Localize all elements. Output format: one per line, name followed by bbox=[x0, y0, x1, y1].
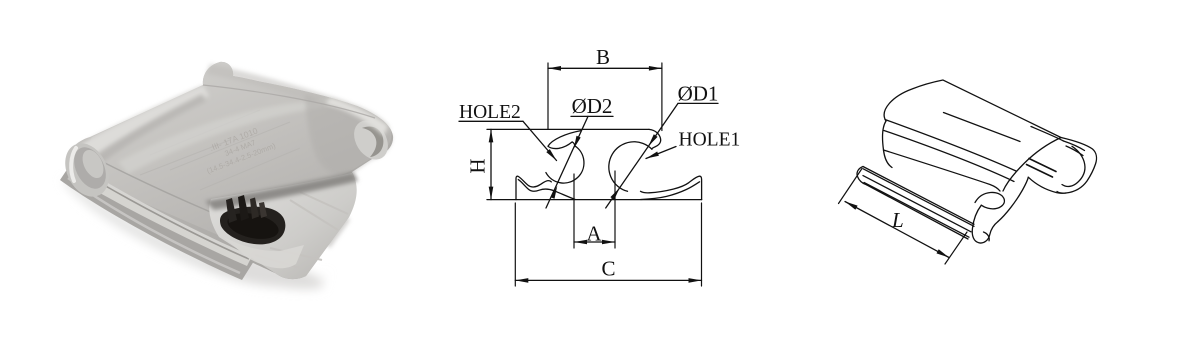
small tube line 1 bbox=[863, 167, 974, 225]
small tube line 3 bbox=[864, 183, 969, 238]
valley inner curl bbox=[984, 232, 990, 241]
HOLE1 leader with arrowhead bbox=[646, 147, 676, 159]
left wing inner surface bbox=[518, 180, 575, 200]
ØD1 arrowheads bbox=[648, 134, 657, 146]
near-end cap corner knob bbox=[975, 192, 1004, 208]
cap left lip underside bbox=[548, 142, 575, 149]
right side shading bbox=[305, 95, 392, 176]
B arrowheads bbox=[548, 66, 561, 71]
ØD2 arrowheads bbox=[574, 136, 581, 149]
dimension A line bbox=[574, 241, 615, 243]
HOLE2 leader with arrowhead bbox=[523, 121, 557, 160]
dimension C extension lines bbox=[514, 203, 516, 286]
cap top face surface lines bbox=[885, 120, 1016, 172]
left tube end face bbox=[57, 136, 118, 204]
left wing outer edge and top surface bbox=[516, 176, 551, 199]
right roll end face bbox=[347, 114, 395, 166]
bottom wing rolled edge band bbox=[60, 165, 254, 280]
cap top-right rounded corner and right lip bbox=[649, 129, 661, 149]
near-end tube tip valley curl bbox=[972, 205, 998, 243]
small tube line 4 bbox=[867, 185, 969, 239]
far-end web profile S-curve bbox=[882, 121, 892, 168]
ØD1 diameter leader line bbox=[606, 103, 678, 208]
roll bottom lip curve bbox=[1028, 177, 1066, 193]
profile top edge with H extension (cross-section) bbox=[487, 128, 649, 130]
top plate surface bbox=[86, 62, 392, 238]
A arrowheads bbox=[574, 240, 587, 245]
small tube line 1b bbox=[863, 169, 974, 227]
right wing inner surface bbox=[641, 182, 700, 200]
connector body silhouette bbox=[68, 62, 393, 279]
svg-text:HOLE1: HOLE1 bbox=[679, 130, 741, 151]
plate sheen streak bbox=[118, 100, 347, 174]
drop shadow under connector bbox=[62, 180, 330, 296]
left rolled tube highlight bbox=[72, 85, 209, 170]
front cross-section face bbox=[209, 173, 356, 279]
dimension H line bbox=[490, 129, 492, 199]
L extension line far bbox=[839, 169, 863, 204]
svg-text:L: L bbox=[891, 208, 904, 232]
L arrowheads bbox=[845, 202, 858, 210]
roll upper wall lines bbox=[1031, 127, 1064, 142]
svg-text:HOLE2: HOLE2 bbox=[459, 102, 521, 123]
groove opening edge rising to roll bottom lip bbox=[998, 177, 1028, 221]
L dimension line bbox=[845, 202, 949, 258]
left tube lower shade bbox=[84, 94, 206, 171]
cap left lip outer curve bbox=[548, 131, 581, 147]
dimension B line bbox=[548, 67, 662, 69]
dark teeth in groove bbox=[226, 198, 237, 223]
ØD2 diameter leader line bbox=[546, 116, 588, 208]
profile bottom edge with H extension bbox=[487, 199, 702, 201]
cap top face outline (far edge, ridge, near edge, bottom-left edge) bbox=[884, 80, 1061, 191]
svg-text:ØD1: ØD1 bbox=[678, 82, 719, 106]
right roll outer curve bbox=[1057, 138, 1097, 194]
svg-text:ØD2: ØD2 bbox=[572, 94, 613, 118]
svg-text:A: A bbox=[586, 222, 602, 246]
dimension A extension lines bbox=[573, 174, 575, 248]
faint plate top edge line bbox=[203, 85, 375, 118]
small groove circle (HOLE2 / ØD2) bbox=[546, 146, 584, 183]
dimension C line bbox=[515, 279, 701, 281]
dark shadow band under plate edge bbox=[205, 172, 358, 210]
C arrowheads bbox=[515, 278, 528, 283]
dark groove hole bbox=[220, 207, 285, 245]
small tube far end curl bbox=[857, 167, 866, 185]
svg-text:C: C bbox=[601, 257, 615, 281]
B extension lines bbox=[547, 63, 549, 129]
L extension line near bbox=[945, 232, 967, 264]
small tube line 2 bbox=[863, 176, 971, 232]
web-cap crease line bbox=[884, 150, 1001, 191]
tube rim highlight bbox=[71, 148, 76, 181]
svg-text:B: B bbox=[596, 45, 610, 69]
plate scratches bbox=[140, 110, 300, 190]
right roll inner end-face arc bbox=[1062, 146, 1085, 186]
bright lower lip of jaw bbox=[222, 236, 304, 268]
right wing outer edge and top surface bbox=[641, 176, 702, 199]
plate upper band shading bbox=[206, 64, 390, 142]
big groove circle (HOLE1 / ØD1) bbox=[609, 142, 652, 192]
stamped text on plate bbox=[198, 121, 277, 175]
H arrowheads bbox=[489, 129, 494, 142]
dark slot lines at groove mouth bbox=[1029, 159, 1056, 172]
face machining streaks bbox=[255, 192, 348, 268]
svg-text:H: H bbox=[466, 158, 490, 173]
roll top highlight bbox=[326, 98, 388, 136]
jaw inner shading bbox=[298, 195, 350, 248]
plate crease line bbox=[103, 162, 300, 247]
